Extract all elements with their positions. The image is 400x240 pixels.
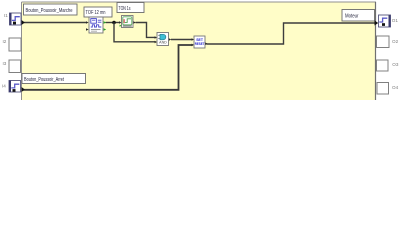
svg-text:I3: I3 [3,61,7,66]
svg-text:Bouton_Poussoir_Arret: Bouton_Poussoir_Arret [24,77,64,83]
wire I4 to RESET input of B4 [23,45,193,90]
wire AND B3 to SET input of B4 [171,39,193,41]
TOF input pins [86,21,89,24]
timer TON block B2 [119,16,136,28]
wire B4 output to O1 [207,23,376,44]
label box TOF 12 mn [84,7,112,17]
wire I1 to TOF B1 [23,22,87,24]
input slot I3 (empty) [9,60,21,73]
svg-text:AND: AND [159,41,167,45]
svg-text:O3: O3 [392,62,399,67]
TON output pin [133,21,135,24]
svg-text:TON 1s: TON 1s [119,6,131,12]
output slot O2 (empty) [377,36,390,48]
wiring sheet [22,2,377,101]
wire J1 down to AND B3 lower input [114,23,156,42]
output slot O3 (empty) [377,60,389,71]
label box Bouton_Poussoir_Arret [22,74,86,84]
wire TOF B1 to TON B2 [106,22,121,24]
node junction J1 [112,21,116,25]
SET/RESET latch block B4 [192,36,208,48]
input slot I2 (empty) [9,38,21,51]
connector arrow I1 [22,20,25,25]
latch output pin [205,42,207,45]
svg-text:I1: I1 [4,13,8,18]
svg-text:Moteur: Moteur [345,14,359,20]
connector arrow O1 [375,21,379,26]
TON input pin [119,21,121,24]
label box TON 1s [117,3,144,13]
svg-text:I4: I4 [2,84,6,89]
input I4 digital-input block [9,81,21,93]
svg-text:RESET: RESET [195,41,205,46]
TOF output pins [104,21,107,24]
input I1 digital-input block [10,13,22,25]
AND gate block B3 [155,33,172,46]
label box Moteur [342,10,375,22]
SET input pin [192,38,194,41]
label box Bouton_Poussoir_Marche [24,4,78,15]
svg-text:O2: O2 [392,39,399,44]
output slot O4 (empty) [377,83,389,95]
connector arrow I4 [22,87,25,92]
svg-text:O1: O1 [392,18,399,23]
wire TON B2 to AND B3 upper input [136,23,156,38]
svg-text:Bouton_Poussoir_Marche: Bouton_Poussoir_Marche [26,8,73,14]
svg-text:TOF 12 mn: TOF 12 mn [86,10,106,16]
RESET input pin [192,44,194,47]
AND output pin [169,38,171,41]
svg-text:O4: O4 [392,85,399,90]
output O1 digital-output block [379,15,391,27]
timer TOF block B1 [86,17,106,33]
svg-text:I2: I2 [3,39,7,44]
AND input pins [155,36,157,39]
